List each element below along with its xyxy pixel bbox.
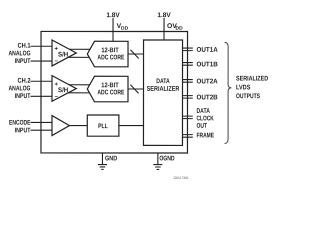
svg-text:OUT2B: OUT2B	[196, 94, 217, 101]
svg-text:S/H: S/H	[58, 87, 68, 94]
svg-text:S/H: S/H	[58, 52, 68, 59]
svg-text:+: +	[55, 46, 59, 52]
svg-text:LVDS: LVDS	[236, 84, 251, 91]
svg-text:OUT2A: OUT2A	[197, 78, 218, 85]
svg-text:DD: DD	[176, 26, 184, 32]
svg-text:DATA: DATA	[196, 108, 209, 115]
svg-text:DATA: DATA	[156, 78, 169, 85]
svg-text:+: +	[55, 82, 59, 88]
svg-text:OUT: OUT	[196, 123, 207, 130]
svg-text:CH.1: CH.1	[18, 43, 31, 50]
svg-text:OUT1A: OUT1A	[197, 47, 218, 54]
svg-text:12-BIT: 12-BIT	[101, 47, 119, 54]
svg-text:CH.2: CH.2	[18, 78, 31, 85]
svg-text:OGND: OGND	[159, 155, 174, 162]
svg-text:ADC CORE: ADC CORE	[97, 54, 124, 61]
svg-text:GND: GND	[105, 155, 117, 162]
svg-text:OUT1B: OUT1B	[197, 61, 218, 68]
svg-text:INPUT: INPUT	[15, 58, 31, 65]
svg-text:1.8V: 1.8V	[157, 12, 171, 19]
svg-text:ADC CORE: ADC CORE	[97, 89, 124, 96]
svg-text:ENCODE: ENCODE	[9, 120, 31, 127]
svg-text:INPUT: INPUT	[15, 93, 31, 100]
svg-text:SERIALIZED: SERIALIZED	[236, 75, 268, 82]
svg-text:22612 TA01: 22612 TA01	[173, 176, 188, 180]
svg-text:12-BIT: 12-BIT	[101, 82, 119, 89]
svg-text:FRAME: FRAME	[196, 132, 214, 139]
svg-text:PLL: PLL	[98, 123, 108, 130]
svg-text:1.8V: 1.8V	[106, 12, 120, 19]
svg-text:OUTPUTS: OUTPUTS	[236, 93, 260, 100]
svg-text:ANALOG: ANALOG	[9, 85, 31, 92]
svg-text:INPUT: INPUT	[15, 127, 31, 134]
svg-text:DD: DD	[121, 26, 129, 32]
svg-text:SERIALIZER: SERIALIZER	[147, 86, 180, 93]
svg-text:ANALOG: ANALOG	[9, 50, 31, 57]
svg-text:CLOCK: CLOCK	[196, 115, 213, 122]
